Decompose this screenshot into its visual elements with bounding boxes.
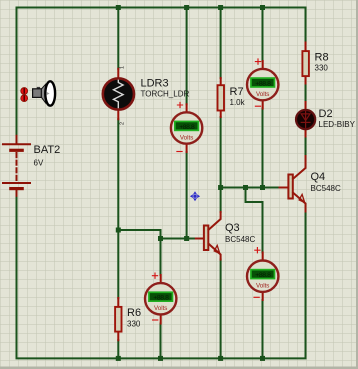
wire: V3 bottom to bottom rail xyxy=(160,324,162,359)
svg-text:BC548C: BC548C xyxy=(225,235,255,244)
transistor Q4 xyxy=(280,187,289,189)
LED D2 xyxy=(305,102,307,137)
node: bottom rail at V4 xyxy=(260,356,265,361)
svg-text:R7: R7 xyxy=(230,86,244,98)
svg-text:TORCH_LDR: TORCH_LDR xyxy=(141,90,190,99)
svg-text:Q3: Q3 xyxy=(225,222,240,234)
wire: R7 column from top rail xyxy=(220,8,222,79)
node: bottom rail at Q3 emitter xyxy=(218,356,223,361)
wire: LDR node across to x160 and down to base row xyxy=(118,230,196,239)
svg-text:R8: R8 xyxy=(315,52,329,64)
svg-text:1: 1 xyxy=(120,66,126,69)
node: bottom rail at V3 xyxy=(158,356,163,361)
wire: LDR bottom to R6 top xyxy=(117,119,119,298)
svg-text:D2: D2 xyxy=(319,108,333,120)
svg-text:+88.8: +88.8 xyxy=(153,295,169,302)
wire: jog from mid row down to V4 xyxy=(246,188,263,253)
voltmeter V3 xyxy=(145,273,176,323)
svg-text:1.0k: 1.0k xyxy=(230,98,246,107)
svg-text:BAT2: BAT2 xyxy=(34,144,61,156)
node: LDR junction xyxy=(116,228,121,233)
wire: D2 bottom to Q4 collector xyxy=(305,137,307,157)
voltmeter V1 xyxy=(171,102,202,152)
svg-text:LDR3: LDR3 xyxy=(141,78,169,90)
svg-text:2: 2 xyxy=(120,122,126,125)
wire: R6 bottom to bottom rail xyxy=(117,340,119,358)
node: mid row at jog xyxy=(243,185,248,190)
node: bottom rail at R6 xyxy=(116,356,121,361)
svg-text:Volts: Volts xyxy=(180,134,193,141)
wire: LDR column upper segment xyxy=(117,8,119,69)
node: base row at V1 column xyxy=(184,236,189,241)
wire: Q3 emitter to bottom rail xyxy=(220,260,222,359)
wire: V1 column from top rail xyxy=(186,8,188,105)
svg-text:+88.8: +88.8 xyxy=(255,272,271,279)
LDR LDR3 xyxy=(117,69,119,120)
svg-text:6V: 6V xyxy=(34,159,44,168)
speaker annotation xyxy=(33,81,56,105)
wire: R8 bottom to D2 top xyxy=(305,84,307,103)
node: top rail at V1 column xyxy=(184,5,189,10)
resistor R7 xyxy=(220,78,222,117)
transistor Q3 xyxy=(196,238,204,240)
wire: bottom rail with left column from battery and right column up to Q4 emitter xyxy=(17,196,306,359)
node: base row at x160 xyxy=(158,236,163,241)
svg-text:LED-BIBY: LED-BIBY xyxy=(319,120,356,129)
wire: top rail with left drop to battery and right drop to R8 xyxy=(17,8,306,136)
voltmeter V4 xyxy=(247,248,278,300)
wire: mid row to Q4 base xyxy=(221,187,280,189)
speaker pin 2 xyxy=(21,95,28,102)
node: mid row at R7 column xyxy=(218,185,223,190)
svg-text:Volts: Volts xyxy=(154,305,167,312)
svg-text:Volts: Volts xyxy=(256,283,269,290)
right scrollbar strip xyxy=(356,0,358,369)
node: top rail at V2 column xyxy=(260,5,265,10)
svg-text:330: 330 xyxy=(315,64,329,73)
origin marker xyxy=(190,191,200,201)
resistor R6 xyxy=(117,298,119,340)
svg-text:+88.8: +88.8 xyxy=(179,124,195,131)
svg-text:Volts: Volts xyxy=(256,91,269,98)
voltmeter V2 xyxy=(247,59,278,109)
resistor R8 xyxy=(305,43,307,84)
svg-text:+88.8: +88.8 xyxy=(255,80,271,87)
svg-text:Q4: Q4 xyxy=(311,171,326,183)
wire: mid row down to Q3 collector xyxy=(220,188,222,213)
wire: R7 bottom to mid row xyxy=(220,117,222,188)
bottom edge strip xyxy=(0,367,358,369)
wire: V2 bottom to mid row xyxy=(262,109,264,188)
speaker pin 1 xyxy=(21,88,28,95)
battery BAT2 xyxy=(3,136,30,196)
wire: V1 bottom down to Q3 base row xyxy=(186,152,188,239)
svg-text:BC548C: BC548C xyxy=(311,184,341,193)
node: mid row at V2 column xyxy=(260,185,265,190)
svg-text:R6: R6 xyxy=(127,307,141,319)
svg-text:330: 330 xyxy=(127,320,141,329)
wire: V2 column from top rail xyxy=(262,8,264,62)
node: top rail at R7 column xyxy=(218,5,223,10)
wire: x160 down to voltmeter V3 xyxy=(160,239,162,276)
node: top rail at LDR column xyxy=(116,5,121,10)
wire: V4 bottom to bottom rail xyxy=(262,300,264,358)
